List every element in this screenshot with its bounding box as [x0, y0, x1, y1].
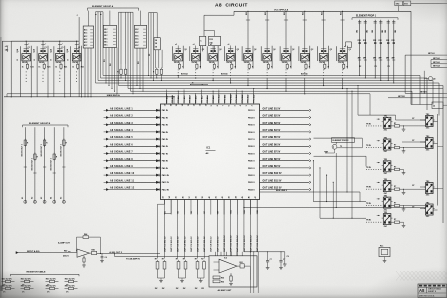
svg-text:R: R	[182, 66, 184, 68]
svg-text:2SC: 2SC	[384, 151, 388, 153]
svg-text:44: 44	[234, 196, 237, 198]
svg-text:TP10 A12: TP10 A12	[218, 95, 221, 103]
svg-text:16: 16	[170, 104, 172, 106]
svg-text:2SC45: 2SC45	[226, 61, 232, 64]
svg-text:A8 SIGNAL LINE 7: A8 SIGNAL LINE 7	[110, 151, 133, 154]
svg-text:R: R	[46, 143, 48, 145]
svg-text:2SC: 2SC	[384, 226, 388, 228]
svg-text:15: 15	[176, 104, 178, 106]
svg-text:PA6 IN: PA6 IN	[162, 145, 169, 148]
svg-text:PA9 IN: PA9 IN	[162, 167, 169, 170]
svg-text:B1C: B1C	[84, 30, 88, 32]
svg-text:39: 39	[202, 196, 204, 198]
svg-text:R9: R9	[149, 54, 151, 56]
svg-text:2W: 2W	[155, 288, 158, 290]
svg-text:A8 SIGNAL LINE 6: A8 SIGNAL LINE 6	[110, 143, 133, 146]
svg-text:R: R	[56, 157, 58, 159]
svg-text:ELEMENT GROUP B: ELEMENT GROUP B	[29, 123, 51, 125]
svg-text:2SC45: 2SC45	[56, 61, 62, 64]
svg-text:NET A3: NET A3	[433, 61, 440, 64]
svg-text:PB19 O: PB19 O	[248, 153, 255, 155]
svg-text:40: 40	[208, 196, 211, 198]
svg-text:5%: 5%	[47, 292, 50, 294]
svg-text:R51 1k2 5%: R51 1k2 5%	[46, 286, 56, 288]
svg-text:BUS A5: BUS A5	[221, 73, 228, 76]
svg-text:OUT C2 SIG 12: OUT C2 SIG 12	[171, 236, 173, 252]
svg-text:TP8 A12: TP8 A12	[206, 96, 209, 103]
svg-text:3: 3	[246, 105, 248, 106]
svg-text:OUT C4 SIG 12: OUT C4 SIG 12	[183, 236, 186, 252]
svg-text:SH3: SH3	[404, 4, 408, 6]
svg-text:Q2: Q2	[254, 49, 256, 51]
svg-text:38: 38	[196, 196, 198, 198]
svg-text:K3: K3	[41, 197, 43, 199]
svg-text:B1C: B1C	[135, 45, 139, 47]
svg-text:B21: B21	[284, 12, 286, 15]
svg-text:R51 1k2 5%: R51 1k2 5%	[46, 279, 56, 281]
svg-text:33: 33	[163, 196, 165, 198]
svg-text:K4: K4	[50, 197, 53, 199]
svg-text:R12: R12	[379, 40, 382, 42]
svg-text:TP4 A12: TP4 A12	[183, 96, 186, 103]
svg-text:NET A2: NET A2	[433, 57, 440, 60]
svg-text:CIRCUIT DIAG: CIRCUIT DIAG	[428, 288, 441, 291]
svg-text:1B2: 1B2	[382, 30, 384, 33]
svg-text:SH2: SH2	[396, 4, 400, 6]
svg-text:R: R	[66, 143, 68, 145]
svg-text:9: 9	[211, 105, 213, 106]
svg-text:Q1A: Q1A	[49, 48, 52, 52]
svg-text:TR IN: TR IN	[366, 203, 371, 205]
svg-text:SIG B3 OUT 1: SIG B3 OUT 1	[41, 144, 43, 156]
svg-text:IC2: IC2	[224, 257, 227, 259]
svg-text:RESISTOR TABLE: RESISTOR TABLE	[27, 271, 46, 274]
svg-text:NET B1: NET B1	[420, 91, 427, 93]
svg-text:2SC: 2SC	[426, 128, 430, 130]
svg-text:SHEET 8: SHEET 8	[428, 291, 436, 293]
svg-text:A8 SIGNAL LINE 12: A8 SIGNAL LINE 12	[110, 187, 135, 190]
svg-text:TR2: TR2	[384, 196, 387, 198]
svg-text:2W: 2W	[176, 288, 179, 290]
svg-text:TP16 A12: TP16 A12	[253, 95, 256, 103]
svg-text:Q2: Q2	[292, 49, 294, 51]
svg-text:R7: R7	[155, 259, 157, 261]
svg-text:1B2: 1B2	[395, 30, 397, 33]
svg-text:400mV: 400mV	[63, 255, 70, 258]
svg-text:1A2: 1A2	[5, 48, 10, 51]
svg-text:W2: W2	[110, 63, 112, 66]
svg-text:BUS A4: BUS A4	[181, 73, 188, 76]
svg-text:4R7: 4R7	[392, 57, 395, 60]
svg-text:PB18 O: PB18 O	[248, 146, 255, 148]
svg-text:B1C: B1C	[135, 42, 139, 44]
svg-text:4R7: 4R7	[373, 57, 376, 60]
svg-text:MAIN BUS A: MAIN BUS A	[107, 94, 120, 97]
svg-text:R7: R7	[394, 186, 396, 188]
svg-text:2W: 2W	[162, 288, 165, 290]
svg-text:36: 36	[182, 196, 184, 198]
svg-text:OUT LINE B11 5V: OUT LINE B11 5V	[263, 180, 282, 182]
svg-text:B1C: B1C	[135, 39, 139, 41]
svg-text:6: 6	[229, 105, 231, 106]
svg-text:2SC45: 2SC45	[301, 61, 307, 64]
svg-text:1B2: 1B2	[367, 30, 369, 33]
svg-text:T3: T3	[340, 146, 342, 148]
svg-text:PB16 O: PB16 O	[248, 132, 255, 134]
svg-text:A8 SIGNAL LINE 10: A8 SIGNAL LINE 10	[110, 172, 135, 175]
svg-text:PA3 IN: PA3 IN	[162, 124, 169, 127]
svg-text:K1: K1	[22, 197, 24, 199]
svg-text:a1: a1	[228, 44, 230, 46]
svg-text:2SC: 2SC	[384, 130, 388, 132]
svg-text:TR2: TR2	[426, 114, 429, 116]
svg-text:C4: C4	[105, 256, 107, 259]
svg-text:PA5 IN: PA5 IN	[162, 138, 169, 141]
svg-text:2SC45: 2SC45	[192, 61, 198, 64]
svg-text:TR IN: TR IN	[366, 167, 371, 169]
svg-text:OUT C5 SIG 12: OUT C5 SIG 12	[191, 236, 193, 252]
svg-text:B1: B1	[164, 211, 166, 213]
svg-text:2SC: 2SC	[426, 216, 430, 218]
svg-text:Q2: Q2	[330, 49, 332, 51]
svg-text:OUT LINE B9 5V: OUT LINE B9 5V	[263, 166, 281, 168]
svg-text:Q2: Q2	[202, 49, 204, 51]
svg-text:PA7 IN: PA7 IN	[162, 152, 169, 155]
svg-text:NET A4: NET A4	[433, 65, 441, 68]
svg-text:PX: PX	[359, 66, 362, 68]
svg-text:5%: 5%	[3, 292, 6, 294]
svg-text:A8 SIGNAL LINE 3: A8 SIGNAL LINE 3	[110, 122, 133, 125]
svg-text:OUT LINE B7 5V: OUT LINE B7 5V	[263, 152, 281, 154]
svg-text:PB22 O: PB22 O	[248, 175, 255, 177]
svg-text:2SC45: 2SC45	[282, 61, 288, 64]
svg-text:TP9 A12: TP9 A12	[212, 96, 215, 103]
svg-text:ELEMENT GROUP A: ELEMENT GROUP A	[92, 5, 114, 8]
svg-text:R66: R66	[221, 282, 224, 284]
svg-text:2SC45: 2SC45	[174, 61, 180, 64]
svg-text:TP11 A12: TP11 A12	[224, 95, 227, 103]
svg-text:2SC45: 2SC45	[72, 61, 78, 64]
svg-text:B1C: B1C	[84, 36, 88, 38]
svg-text:47: 47	[254, 196, 257, 198]
svg-text:PB15 O: PB15 O	[248, 125, 255, 127]
svg-text:A8: A8	[206, 152, 210, 155]
svg-text:R7: R7	[162, 259, 164, 261]
svg-text:J: J	[77, 15, 78, 17]
svg-text:TR IN: TR IN	[366, 220, 371, 222]
svg-text:R12: R12	[392, 40, 395, 42]
svg-text:1k: 1k	[38, 66, 40, 68]
svg-text:C7: C7	[270, 259, 272, 261]
svg-text:OUT LINE B2 5V: OUT LINE B2 5V	[263, 116, 281, 118]
svg-text:41: 41	[214, 196, 217, 198]
svg-text:B: B	[67, 59, 69, 61]
svg-text:4R7: 4R7	[363, 57, 366, 60]
svg-text:Q9: Q9	[433, 79, 435, 81]
svg-text:R: R	[217, 66, 219, 68]
svg-text:46: 46	[248, 196, 251, 198]
svg-text:B1C: B1C	[104, 35, 108, 37]
svg-text:R61: R61	[240, 262, 243, 264]
svg-text:R7: R7	[394, 203, 396, 205]
svg-text:BUS A6: BUS A6	[301, 73, 308, 76]
svg-text:R: R	[328, 66, 330, 68]
svg-text:R7: R7	[394, 145, 396, 147]
svg-text:B: B	[101, 13, 103, 15]
svg-text:PA11 IN: PA11 IN	[162, 181, 170, 184]
svg-text:A8 SIGNAL LINE 4: A8 SIGNAL LINE 4	[110, 129, 133, 132]
svg-text:PA2 IN: PA2 IN	[162, 116, 169, 119]
svg-text:B1C: B1C	[135, 35, 139, 37]
svg-text:B1C: B1C	[104, 29, 108, 31]
svg-text:R65: R65	[221, 278, 224, 280]
svg-text:2SC45: 2SC45	[244, 61, 250, 64]
svg-text:R: R	[27, 143, 29, 145]
svg-text:R: R	[252, 66, 254, 68]
svg-text:TP15 A12: TP15 A12	[247, 95, 250, 103]
svg-text:TP1 A12: TP1 A12	[165, 96, 168, 103]
svg-text:TP7 A12: TP7 A12	[200, 96, 203, 103]
svg-text:R51 1k2 5%: R51 1k2 5%	[2, 279, 12, 281]
svg-text:TR IN: TR IN	[366, 187, 371, 189]
svg-text:2SC45: 2SC45	[319, 61, 325, 64]
svg-text:R: R	[309, 66, 311, 68]
svg-text:A8 SIGNAL LINE 2: A8 SIGNAL LINE 2	[110, 115, 133, 118]
svg-text:45: 45	[241, 196, 244, 198]
svg-text:OUT C8 SIG 12: OUT C8 SIG 12	[211, 236, 213, 252]
svg-text:C: C	[200, 41, 202, 43]
svg-text:R: R	[37, 157, 39, 159]
svg-text:Q2: Q2	[273, 49, 275, 51]
svg-text:1B2: 1B2	[372, 30, 374, 33]
svg-text:1B: 1B	[155, 47, 158, 49]
svg-text:1B: 1B	[155, 43, 158, 45]
svg-text:B5: B5	[191, 211, 193, 213]
svg-text:1k: 1k	[55, 66, 57, 68]
svg-text:B: B	[34, 59, 36, 61]
svg-text:B21: B21	[321, 12, 323, 15]
svg-text:4R7: 4R7	[379, 57, 382, 60]
svg-text:Q2: Q2	[184, 49, 186, 51]
svg-text:1k: 1k	[22, 66, 24, 68]
svg-text:TR IN: TR IN	[366, 123, 371, 125]
svg-text:34: 34	[168, 196, 171, 198]
svg-text:K2: K2	[31, 197, 33, 199]
svg-text:A8 SIGNAL LINE 9: A8 SIGNAL LINE 9	[110, 165, 133, 168]
svg-text:2SC: 2SC	[384, 173, 388, 175]
svg-text:R: R	[290, 66, 292, 68]
svg-text:A-AMP OUT: A-AMP OUT	[58, 242, 70, 245]
svg-text:37: 37	[189, 196, 191, 198]
svg-text:PA10 IN: PA10 IN	[162, 174, 170, 177]
svg-text:B21: B21	[246, 12, 248, 15]
svg-text:Q2: Q2	[237, 49, 239, 51]
svg-text:PB20 O: PB20 O	[248, 161, 255, 163]
svg-text:A8 AMP UNIT: A8 AMP UNIT	[218, 289, 233, 292]
svg-text:PB13 O: PB13 O	[248, 110, 255, 112]
svg-text:OUT LINE B1 5V: OUT LINE B1 5V	[263, 108, 281, 110]
svg-text:2SC: 2SC	[426, 150, 430, 152]
svg-text:1B2: 1B2	[357, 30, 359, 33]
svg-text:A: A	[95, 13, 98, 15]
svg-text:2SC: 2SC	[384, 193, 388, 195]
svg-text:12: 12	[194, 104, 196, 106]
svg-text:TR2: TR2	[384, 116, 387, 118]
svg-text:ELEMENT PROP2: ELEMENT PROP2	[333, 140, 349, 142]
svg-text:B1C: B1C	[104, 44, 108, 46]
svg-text:B1C: B1C	[135, 29, 139, 31]
svg-text:R: R	[117, 72, 119, 74]
svg-text:R: R	[153, 72, 155, 74]
svg-text:13: 13	[188, 104, 190, 106]
svg-text:TP14 A12: TP14 A12	[241, 95, 244, 103]
svg-text:B1C: B1C	[84, 45, 88, 47]
svg-text:11: 11	[199, 104, 201, 106]
svg-text:R51 1k2 5%: R51 1k2 5%	[21, 279, 31, 281]
svg-text:+5V: +5V	[5, 46, 9, 48]
svg-text:GT: GT	[412, 118, 415, 120]
svg-text:OUT C14 SIG 12: OUT C14 SIG 12	[249, 235, 252, 252]
svg-text:PB21 O: PB21 O	[248, 168, 255, 170]
svg-text:2SC45: 2SC45	[39, 61, 45, 64]
svg-text:Q2: Q2	[311, 49, 313, 51]
svg-text:14: 14	[181, 104, 184, 106]
svg-text:J2: J2	[433, 106, 435, 108]
svg-text:B: B	[51, 59, 53, 61]
svg-text:BUS LINE 2: BUS LINE 2	[276, 190, 288, 192]
svg-text:A8: A8	[419, 288, 425, 293]
svg-text:K5: K5	[60, 197, 62, 199]
svg-text:42: 42	[221, 196, 224, 198]
svg-text:W3: W3	[138, 61, 140, 64]
svg-text:OUT LINE B4 5V: OUT LINE B4 5V	[263, 129, 281, 132]
svg-text:A8 SIGNAL LINE 8: A8 SIGNAL LINE 8	[110, 158, 133, 161]
svg-text:GT: GT	[412, 185, 415, 187]
svg-text:R44: R44	[84, 233, 87, 236]
svg-text:PB23 O: PB23 O	[248, 182, 255, 184]
svg-text:J5: J5	[192, 83, 194, 85]
svg-text:5%: 5%	[22, 292, 25, 294]
svg-text:2SC45: 2SC45	[338, 61, 344, 64]
svg-text:2W: 2W	[195, 288, 198, 290]
svg-text:GT: GT	[412, 140, 415, 142]
svg-text:TR2: TR2	[384, 137, 387, 139]
svg-text:2SC: 2SC	[426, 195, 430, 197]
svg-text:B1C: B1C	[84, 33, 88, 35]
svg-text:TP5 A12: TP5 A12	[189, 96, 192, 103]
svg-text:TP2 A12: TP2 A12	[171, 96, 174, 103]
svg-text:10: 10	[205, 104, 207, 106]
svg-text:RL1: RL1	[380, 245, 383, 247]
svg-text:OUT LINE B10 5V: OUT LINE B10 5V	[263, 173, 282, 175]
svg-text:OUT LINE B3 5V: OUT LINE B3 5V	[263, 123, 281, 125]
svg-text:R7: R7	[201, 259, 203, 261]
svg-text:TR2: TR2	[426, 136, 429, 138]
svg-text:R12: R12	[363, 40, 366, 42]
svg-text:TR2: TR2	[384, 212, 387, 214]
svg-text:4: 4	[239, 105, 242, 106]
svg-text:5: 5	[234, 105, 236, 106]
svg-text:A8 CIRCUIT: A8 CIRCUIT	[215, 2, 248, 8]
svg-text:R7: R7	[394, 123, 396, 125]
svg-text:4R7: 4R7	[358, 57, 361, 60]
svg-text:PA1 IN: PA1 IN	[162, 109, 169, 112]
svg-text:2SC45: 2SC45	[263, 61, 269, 64]
svg-text:R12: R12	[386, 40, 389, 42]
svg-text:NET B2: NET B2	[398, 96, 405, 98]
svg-text:a1: a1	[210, 44, 212, 46]
svg-text:W1: W1	[104, 59, 106, 62]
svg-text:TO A8 AMP IN: TO A8 AMP IN	[126, 257, 140, 260]
svg-text:A-SIG OUT 2: A-SIG OUT 2	[109, 251, 122, 254]
svg-text:4R7: 4R7	[386, 57, 389, 60]
svg-text:R7: R7	[183, 259, 185, 261]
svg-text:R12: R12	[373, 40, 376, 42]
svg-text:1k: 1k	[72, 66, 74, 68]
svg-text:INPUT A-SIG: INPUT A-SIG	[27, 250, 40, 253]
svg-text:8: 8	[217, 105, 219, 106]
svg-text:TR2: TR2	[426, 202, 429, 204]
svg-text:2: 2	[252, 105, 254, 106]
svg-text:1B2: 1B2	[385, 30, 387, 33]
svg-text:R: R	[347, 66, 349, 68]
svg-text:PX: PX	[375, 66, 378, 68]
svg-text:B1C: B1C	[104, 41, 108, 43]
svg-text:A8 SIGNAL LINE 1: A8 SIGNAL LINE 1	[110, 107, 133, 110]
svg-text:TP6 A12: TP6 A12	[194, 96, 197, 103]
svg-text:R7: R7	[195, 259, 197, 261]
svg-text:5%: 5%	[66, 292, 69, 294]
svg-text:B1C: B1C	[104, 32, 108, 34]
svg-text:2SC: 2SC	[384, 209, 388, 211]
svg-text:Q1A: Q1A	[33, 48, 36, 52]
svg-text:B1C: B1C	[84, 42, 88, 44]
svg-text:SIG B2 OUT 1: SIG B2 OUT 1	[31, 158, 33, 170]
svg-text:Q2: Q2	[349, 49, 351, 51]
svg-text:PA8 IN: PA8 IN	[162, 160, 169, 163]
svg-text:R7: R7	[394, 219, 396, 221]
svg-text:DWG NO 8-100-A: DWG NO 8-100-A	[419, 294, 435, 297]
svg-text:43: 43	[228, 196, 231, 198]
svg-text:2SC45: 2SC45	[22, 61, 28, 64]
svg-text:TR2: TR2	[384, 159, 387, 161]
svg-text:R51 1k2 5%: R51 1k2 5%	[65, 286, 75, 288]
svg-text:a2: a2	[344, 46, 346, 48]
svg-text:R51 1k2 5%: R51 1k2 5%	[2, 286, 12, 288]
svg-text:R21: R21	[47, 66, 50, 68]
svg-text:B1C: B1C	[84, 39, 88, 41]
svg-text:a1: a1	[175, 44, 177, 46]
svg-text:2W: 2W	[201, 288, 204, 290]
svg-text:C9: C9	[287, 256, 289, 258]
svg-text:TP3 A12: TP3 A12	[177, 96, 180, 103]
svg-text:B1C: B1C	[104, 38, 108, 40]
svg-text:R51 1k2 5%: R51 1k2 5%	[65, 279, 75, 281]
svg-text:PB14 O: PB14 O	[248, 116, 255, 119]
svg-text:B: B	[17, 59, 19, 61]
svg-text:PA12 IN: PA12 IN	[162, 188, 170, 191]
svg-text:TP12 A12: TP12 A12	[229, 95, 232, 103]
svg-text:ELEMENT PROP 1: ELEMENT PROP 1	[356, 16, 377, 18]
svg-text:NET A1: NET A1	[428, 52, 435, 55]
svg-text:PB17 O: PB17 O	[248, 139, 255, 141]
svg-text:TR IN: TR IN	[366, 145, 371, 147]
svg-text:R: R	[200, 66, 202, 68]
svg-text:Q1A: Q1A	[66, 48, 69, 52]
svg-text:R51 1k2 5%: R51 1k2 5%	[21, 286, 31, 288]
svg-text:Q1A: Q1A	[16, 48, 19, 52]
svg-text:17: 17	[165, 104, 167, 106]
